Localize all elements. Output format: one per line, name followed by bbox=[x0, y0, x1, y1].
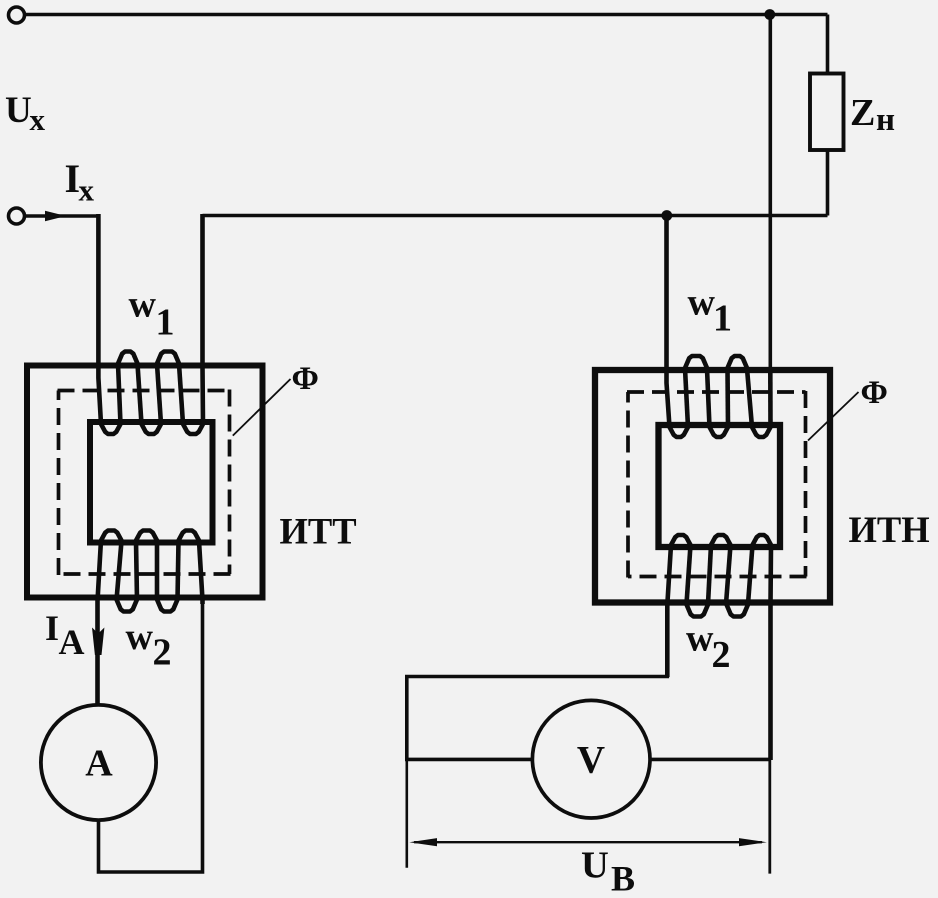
arrow I_A on wire bbox=[92, 628, 104, 656]
transformer ИТТ flux path (dashed) bbox=[58, 390, 231, 576]
svg-text:1: 1 bbox=[713, 298, 732, 340]
terminal I_x bbox=[9, 208, 25, 224]
svg-text:Φ: Φ bbox=[292, 361, 319, 397]
svg-text:I: I bbox=[45, 608, 59, 648]
svg-text:U: U bbox=[5, 90, 32, 131]
leader line Φ of ИТТ bbox=[233, 379, 291, 436]
wire Z_H bottom lead bbox=[826, 150, 830, 216]
wire from top bus down to ИТН w1 right bbox=[768, 15, 772, 373]
wire ammeter loop bottom bbox=[99, 600, 203, 872]
svg-text:ИТН: ИТН bbox=[849, 509, 930, 550]
wire top bus bbox=[25, 13, 828, 17]
svg-text:Φ: Φ bbox=[861, 375, 888, 411]
wire voltmeter right to ИТН w2 right bbox=[650, 758, 771, 762]
wire middle bus (w1 right of ИТТ to Z_H) bbox=[203, 214, 828, 218]
transformer ИТТ core window bbox=[90, 422, 213, 543]
transformer ИТН flux path (dashed) bbox=[627, 391, 807, 578]
svg-text:V: V bbox=[577, 739, 605, 782]
leader line Φ of ИТН bbox=[808, 392, 859, 441]
wire ИТН w2 left to voltmeter bbox=[407, 660, 668, 759]
transformer ИТТ outer core boundary bbox=[27, 366, 263, 598]
winding w2 of ИТТ bbox=[98, 531, 203, 707]
extension line right of U_B dimension bbox=[768, 760, 771, 874]
svg-text:A: A bbox=[85, 743, 113, 785]
svg-text:x: x bbox=[30, 102, 46, 137]
ammeter A bbox=[41, 705, 156, 820]
node junction at ИТН w1 left bbox=[661, 210, 672, 221]
svg-text:x: x bbox=[79, 173, 95, 208]
dimension arrow U_B bbox=[409, 838, 767, 846]
transformer ИТН outer core boundary bbox=[595, 370, 830, 603]
svg-text:В: В bbox=[611, 859, 635, 898]
svg-text:w: w bbox=[688, 282, 716, 324]
svg-text:A: A bbox=[59, 622, 85, 662]
resistor Z_H bbox=[810, 74, 844, 151]
svg-text:1: 1 bbox=[156, 302, 175, 344]
wire Z_H top lead bbox=[826, 15, 830, 74]
svg-text:ИТТ: ИТТ bbox=[280, 511, 357, 552]
voltmeter V bbox=[532, 700, 650, 818]
transformer ИТН core window bbox=[659, 425, 781, 547]
terminal U_x bbox=[9, 7, 25, 23]
svg-text:w: w bbox=[686, 618, 714, 660]
wire I_x with current arrow bbox=[25, 214, 98, 218]
svg-text:Z: Z bbox=[850, 92, 875, 134]
winding w1 of ИТТ bbox=[98, 214, 203, 434]
winding w2 of ИТН bbox=[667, 535, 771, 760]
node junction on top bus bbox=[764, 9, 775, 20]
svg-text:w: w bbox=[129, 284, 157, 326]
svg-text:2: 2 bbox=[712, 634, 731, 676]
winding w1 of ИТН bbox=[667, 217, 771, 437]
svg-text:w: w bbox=[126, 616, 154, 658]
extension line left of U_B dimension bbox=[405, 759, 408, 867]
svg-text:н: н bbox=[876, 102, 895, 138]
svg-text:2: 2 bbox=[153, 632, 172, 674]
svg-text:U: U bbox=[581, 845, 609, 887]
